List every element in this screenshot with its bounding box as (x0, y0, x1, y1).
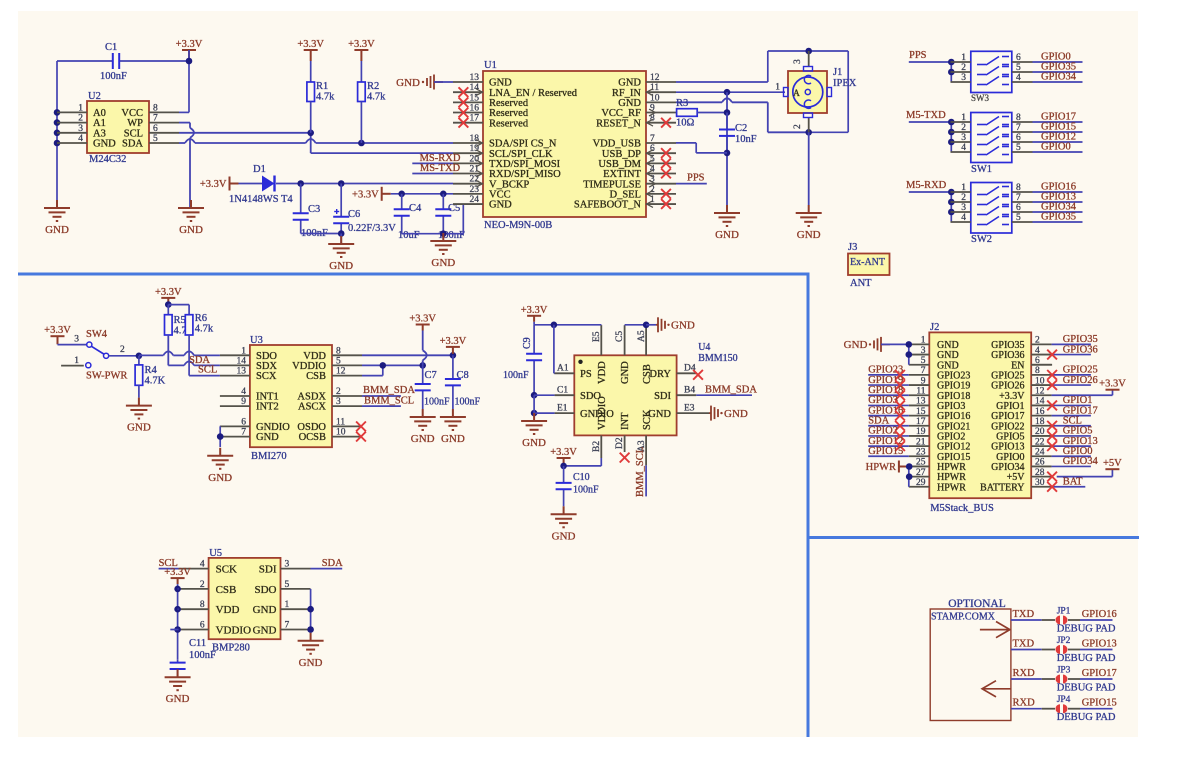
U3 pin 10 OCSB (332, 436, 362, 438)
resistor R1 4.7k (310, 61, 312, 82)
J2 pin 24 GPIO0 (1031, 455, 1051, 457)
wire C1 left to U2 pins bus (56, 61, 58, 208)
svg-text:GND: GND (715, 229, 739, 241)
svg-text:29: 29 (916, 478, 926, 488)
ground below J1 (808, 132, 810, 205)
svg-text:4: 4 (1035, 346, 1040, 356)
svg-text:B4: B4 (684, 385, 695, 395)
capacitor C10 100nF (563, 466, 565, 483)
svg-text:GPIO13: GPIO13 (1082, 639, 1117, 650)
wire U5 CSB (178, 588, 179, 590)
J2 pin 2 GPIO35 (1031, 343, 1051, 345)
net label SCL at U5 (159, 568, 179, 570)
svg-text:2: 2 (200, 580, 205, 590)
power flag +3.3V at BMM150 (527, 316, 541, 322)
svg-text:U2: U2 (88, 91, 101, 102)
SW1 pin 7 net GPIO15 (1012, 131, 1033, 133)
svg-text:BMM150: BMM150 (698, 353, 737, 364)
SW1 pin 6 net GPIO12 (1012, 141, 1033, 143)
svg-text:GND: GND (299, 657, 323, 669)
svg-text:GND: GND (671, 320, 695, 332)
J2 pin 8 GPIO25 (1031, 374, 1051, 376)
svg-text:M5Stack_BUS: M5Stack_BUS (930, 503, 994, 514)
junction C10 (560, 463, 567, 470)
U2 pin 4 GND (57, 142, 87, 144)
SW3 pin 2 (951, 71, 971, 73)
power flag +3.3V at U5 (171, 578, 185, 584)
svg-text:30: 30 (1035, 478, 1045, 488)
svg-text:VDD: VDD (216, 604, 240, 616)
svg-text:15: 15 (916, 407, 926, 417)
svg-text:U4: U4 (698, 342, 710, 353)
svg-text:SW-PWR: SW-PWR (86, 371, 127, 382)
svg-text:BATTERY: BATTERY (980, 482, 1024, 493)
svg-text:E3: E3 (684, 403, 695, 413)
svg-text:+3.3V: +3.3V (440, 336, 467, 347)
svg-text:11: 11 (650, 83, 659, 93)
svg-text:BMP280: BMP280 (212, 643, 250, 654)
no connect X at J2 pin 18 (1047, 421, 1057, 431)
resistor R4 4.7K (138, 356, 140, 365)
wire VCC to U1 pin 23 (391, 193, 453, 195)
net label GPIO26 at J2 pin 10 (1052, 384, 1091, 386)
svg-text:GND: GND (256, 432, 279, 443)
svg-text:DEBUG PAD: DEBUG PAD (1057, 683, 1116, 694)
svg-text:24: 24 (1035, 447, 1045, 457)
svg-text:GPIO34: GPIO34 (1063, 456, 1099, 467)
wire BMM SDO (534, 394, 555, 396)
U4 pin C1 SDO (555, 394, 575, 396)
svg-text:10: 10 (1035, 376, 1045, 386)
svg-text:2: 2 (793, 124, 803, 129)
SW2 pin 5 net GPIO35 (1012, 221, 1033, 223)
svg-text:9: 9 (921, 376, 926, 386)
wire PS pull up (553, 325, 555, 374)
no connect X at J2 pin 8 (1047, 370, 1057, 380)
svg-text:GPIO17: GPIO17 (1082, 668, 1117, 679)
svg-text:+5V: +5V (1103, 458, 1122, 469)
ipex connector J1 (809, 50, 849, 52)
wire C4 C5 bottom to U1 pin24 (402, 233, 464, 235)
U1 pin 13 GND (453, 81, 483, 83)
svg-text:SAFEBOOT_N: SAFEBOOT_N (574, 200, 642, 211)
svg-text:12: 12 (650, 73, 660, 83)
svg-text:+3.3V: +3.3V (409, 314, 436, 325)
net label GPIO3 at J2 pin 13 (868, 404, 909, 406)
junction C9 GNDIO (531, 410, 538, 417)
wire SW4 to U3 SDO (139, 354, 163, 356)
svg-text:6: 6 (200, 621, 205, 631)
svg-text:E1: E1 (557, 403, 568, 413)
svg-text:2: 2 (961, 193, 966, 203)
svg-text:4: 4 (1016, 73, 1021, 83)
svg-text:100nF: 100nF (573, 485, 599, 496)
no connect X at J2 pin 28 (1047, 472, 1057, 482)
no connect X U4 INT (620, 453, 630, 463)
power flag +5V at J2 (1105, 468, 1119, 470)
svg-text:SCX: SCX (256, 371, 277, 382)
svg-text:+3.3V: +3.3V (164, 567, 191, 578)
wire U1 pin12 GND to J1 shield (676, 81, 768, 83)
net label GPIO16 at J2 pin 15 (868, 415, 909, 417)
no connect X U1 pin 8 (661, 118, 671, 128)
no connect X at J2 pin 14 (1047, 401, 1057, 411)
arrow out right (980, 622, 1010, 638)
net label BMM_SCL vertical (645, 465, 647, 496)
svg-text:RXD: RXD (1013, 698, 1036, 709)
switch SW1 (971, 113, 1012, 163)
net label BAT at J2 pin 30 (1052, 486, 1086, 488)
U3 pin 6 GNDIO (220, 425, 250, 427)
svg-text:11: 11 (336, 417, 345, 427)
svg-text:3: 3 (74, 335, 79, 345)
U2 pin 5 SDA (149, 142, 179, 144)
svg-text:M5-TXD: M5-TXD (906, 110, 946, 121)
no connect X U3 pins 11 10 (356, 422, 366, 432)
svg-text:OCSB: OCSB (299, 432, 326, 443)
SW1 pin 5 net GPIO0 (1012, 151, 1033, 153)
no connect X at J2 pin 22 (1047, 441, 1057, 451)
J2 pin 19 GPIO2 (909, 435, 930, 437)
svg-text:2: 2 (1035, 336, 1040, 346)
U2 pin 8 VCC (149, 111, 179, 113)
U1 pin 5 USB_DM (646, 162, 676, 164)
SW3 pin 4 net GPIO34 (1012, 81, 1033, 83)
SW1 pin 2 (951, 131, 971, 133)
ground below U2 inputs (44, 200, 70, 221)
U4 pin A3 SCK (645, 435, 647, 465)
net label GPIO36 at J2 pin 4 (1052, 354, 1091, 356)
wire +3.3V to BMM VDD (533, 322, 535, 325)
svg-text:CSB: CSB (216, 584, 237, 596)
svg-text:8: 8 (200, 600, 205, 610)
svg-text:M24C32: M24C32 (89, 154, 126, 165)
section divider horizontal left (18, 273, 808, 276)
svg-text:100nF: 100nF (503, 370, 529, 381)
svg-text:7: 7 (1016, 193, 1021, 203)
svg-text:C4: C4 (409, 203, 422, 214)
wire V_BCKP net (276, 183, 453, 185)
svg-text:M5-RXD: M5-RXD (906, 180, 947, 191)
wire BMM VDDIO to +3.3V (600, 458, 602, 466)
svg-text:JP4: JP4 (1057, 695, 1071, 705)
section divider vertical (807, 273, 810, 738)
svg-text:+3.3V: +3.3V (1099, 379, 1126, 390)
svg-text:U3: U3 (250, 335, 263, 346)
svg-text:C5: C5 (615, 331, 625, 342)
J2 pin 18 GPIO22 (1031, 425, 1051, 427)
svg-text:GPIO26: GPIO26 (1063, 375, 1098, 386)
U1 pin 4 EXTINT (646, 173, 676, 175)
J2 pin 16 GPIO17 (1031, 415, 1051, 417)
J2 pin 20 GPIO5 (1031, 435, 1051, 437)
svg-text:GND: GND (844, 339, 868, 351)
U1 pin 1 SAFEBOOT_N (646, 203, 676, 205)
gps module U1 NEO-M9N-00B (483, 71, 646, 217)
U4 pin D4 DRY (677, 372, 697, 374)
U2 pin 6 SCL (149, 132, 179, 134)
svg-text:U1: U1 (484, 60, 497, 71)
wire BMM GNDIO (534, 412, 555, 414)
svg-text:JP3: JP3 (1057, 666, 1071, 676)
svg-text:B2: B2 (592, 441, 602, 452)
svg-text:5: 5 (1016, 63, 1021, 73)
svg-text:VDD: VDD (597, 361, 608, 384)
svg-text:13: 13 (237, 367, 247, 377)
svg-text:C2: C2 (735, 123, 747, 134)
U1 input arrows (476, 89, 483, 96)
svg-text:2: 2 (336, 387, 341, 397)
svg-text:+3.3V: +3.3V (176, 39, 203, 50)
svg-text:18: 18 (1035, 417, 1045, 427)
svg-text:VDDIO: VDDIO (216, 625, 251, 637)
net label MS-TXD (412, 173, 453, 175)
U2 pin 3 A3 (57, 132, 87, 134)
svg-text:16: 16 (1035, 407, 1045, 417)
SW1 pin 8 net GPIO17 (1012, 121, 1033, 123)
ground below C8 (440, 409, 466, 430)
capacitor C1 (57, 60, 113, 62)
svg-text:16: 16 (470, 104, 480, 114)
J2 pin 23 GPIO15 (909, 455, 930, 457)
U2 pin 2 A1 (57, 122, 87, 124)
svg-text:R1: R1 (316, 81, 328, 92)
svg-text:PS: PS (580, 369, 592, 380)
svg-text:C11: C11 (189, 638, 206, 649)
U1 pin 23 VCC (453, 193, 483, 195)
J2 pin 9 GPIO19 (909, 384, 930, 386)
SW3 pin 3 (951, 81, 971, 83)
power flag +3.3V at J2 (1106, 389, 1120, 391)
resistor R5 4.7k (167, 305, 169, 315)
J2 pin 25 HPWR (909, 465, 930, 467)
svg-text:4.7k: 4.7k (195, 324, 214, 335)
svg-text:DEBUG PAD: DEBUG PAD (1057, 712, 1116, 723)
U5 pin 4 SCK (179, 568, 209, 570)
svg-text:4.7k: 4.7k (316, 92, 335, 103)
svg-text:GPIO15: GPIO15 (868, 446, 903, 457)
SW2 pin 1 (951, 191, 971, 193)
wire U2 VCC to +3.3V (179, 111, 189, 113)
ground below R4 (126, 398, 152, 419)
wire U3 VDD to +3.3V (362, 354, 453, 356)
U1 pin 21 RXD/SPI_MISO (453, 173, 483, 175)
svg-text:GND: GND (253, 604, 277, 616)
U1 pin 15 Reserved (453, 101, 483, 103)
svg-text:GND: GND (522, 437, 546, 449)
svg-text:5: 5 (285, 580, 290, 590)
J2 pin 11 GPIO18 (909, 394, 930, 396)
svg-text:100nF: 100nF (424, 397, 450, 408)
svg-text:18: 18 (470, 134, 480, 144)
U1 pin 11 RF_IN (646, 91, 676, 93)
J2 pin 30 BATTERY (1031, 486, 1051, 488)
svg-text:BMM_SDA: BMM_SDA (705, 384, 757, 395)
svg-text:A5: A5 (637, 330, 647, 342)
power flag +3.3V at C10 (557, 458, 571, 464)
U4 pin E5 VDD (600, 325, 602, 355)
J2 pin 6 EN (1031, 364, 1051, 366)
svg-text:INT: INT (620, 412, 631, 430)
svg-text:GND: GND (411, 433, 435, 445)
svg-text:17: 17 (916, 417, 926, 427)
no connect X at J2 pin 20 (1047, 431, 1057, 441)
U1 pin 9 VCC_RF (646, 112, 676, 114)
svg-text:25: 25 (916, 458, 926, 468)
svg-text:28: 28 (1035, 468, 1045, 478)
gnd power port at J2 pin1 (874, 337, 890, 352)
svg-text:C8: C8 (457, 370, 469, 381)
wire U1 pin10 GND to J1 shield (676, 101, 722, 103)
diode D1 1N4148WS T4 (239, 183, 264, 185)
U4 pin C5 GND (624, 325, 626, 355)
J2 pin 5 GND (909, 364, 930, 366)
U4 pin D2 INT (624, 435, 626, 452)
U3 pin 3 ASCX (332, 405, 362, 407)
SW3 pin 1 (951, 61, 971, 63)
U3 pin 7 GND (220, 436, 250, 438)
svg-text:E5: E5 (592, 331, 602, 342)
svg-text:TXD: TXD (1013, 609, 1035, 620)
ground below C9 (521, 413, 547, 434)
svg-text:ANT: ANT (850, 278, 872, 289)
svg-text:14: 14 (237, 356, 247, 366)
J2 pin 27 HPWR (909, 476, 930, 478)
junction C4 top (398, 191, 405, 198)
wire U3 VDDIO (362, 364, 423, 366)
U3 pin 9 INT2 (220, 405, 250, 407)
imu U3 BMI270 (250, 345, 332, 447)
U5 pin 3 SDI (281, 568, 311, 570)
svg-text:3: 3 (78, 124, 83, 134)
wire J2 +3.3V pin 12 (1052, 394, 1113, 396)
svg-text:GND: GND (253, 625, 277, 637)
svg-text:GND: GND (208, 472, 232, 484)
net label MS-RXD (412, 162, 453, 164)
svg-text:J1: J1 (833, 67, 842, 78)
net label SCL at J2 pin 18 (1052, 425, 1091, 427)
svg-text:14: 14 (470, 83, 480, 93)
ground below C10 (551, 506, 577, 527)
svg-text:GND: GND (127, 422, 151, 434)
no connect X at J2 pin 30 (1047, 482, 1057, 492)
J2 pin 29 HPWR (909, 486, 930, 488)
svg-text:DEBUG PAD: DEBUG PAD (1057, 624, 1116, 635)
svg-text:GND: GND (620, 361, 631, 384)
svg-text:SDO: SDO (254, 584, 276, 596)
junction R5 R6 top (165, 301, 172, 308)
svg-text:GND: GND (724, 408, 748, 420)
svg-text:A: A (793, 89, 800, 99)
net label GPIO23 at J2 pin 7 (868, 374, 909, 376)
svg-text:13: 13 (916, 397, 926, 407)
svg-text:RXD: RXD (1013, 668, 1036, 679)
switch SW2 (971, 183, 1012, 234)
U1 pin 22 V_BCKP (453, 183, 483, 185)
U1 pin 14 LNA_EN / Reserved (453, 91, 483, 93)
svg-text:BMM_SCL: BMM_SCL (364, 396, 414, 407)
bus connector J2 M5Stack_BUS (929, 332, 1031, 498)
gnd power port at U1 pin 13 (427, 75, 443, 90)
U5 pin 2 CSB (179, 588, 209, 590)
svg-text:CSB: CSB (306, 371, 326, 382)
svg-text:7: 7 (241, 428, 246, 438)
net label GPIO25 at J2 pin 8 (1052, 374, 1091, 376)
gnd bar port at BMM E3 (709, 406, 718, 421)
net label SDA at J2 pin 17 (868, 425, 909, 427)
svg-text:GPIO34: GPIO34 (1041, 72, 1077, 83)
U3 pin 12 CSB (332, 375, 362, 377)
svg-text:1: 1 (74, 356, 79, 366)
svg-text:20: 20 (1035, 427, 1045, 437)
svg-text:SW2: SW2 (971, 234, 992, 245)
svg-text:6: 6 (1016, 133, 1021, 143)
power flag +3.3V above R1 (304, 50, 318, 61)
svg-text:HPWR: HPWR (937, 482, 966, 493)
svg-text:JP2: JP2 (1057, 636, 1071, 646)
svg-text:RESET_N: RESET_N (596, 118, 641, 129)
U5 pin 1 GND (281, 608, 311, 610)
wire U1 pin11 RF_IN to J1 pin1 (676, 91, 785, 93)
ground below C6 (340, 234, 342, 245)
svg-text:3: 3 (961, 73, 966, 83)
svg-text:+3.3V: +3.3V (352, 189, 379, 200)
SW2 pin 4 (951, 221, 971, 223)
U3 pin 5 VDDIO (332, 364, 362, 366)
U1 pin 20 TXD/SPI_MOSI (453, 162, 483, 164)
svg-text:17: 17 (470, 114, 480, 124)
svg-text:J3: J3 (848, 242, 857, 253)
junction C3 top (297, 180, 304, 187)
svg-text:10uF: 10uF (398, 230, 420, 241)
svg-text:12: 12 (336, 367, 346, 377)
svg-text:SDI: SDI (259, 564, 277, 576)
svg-text:Ex-ANT: Ex-ANT (850, 257, 885, 268)
wire +3.3V down to VDDIO (422, 331, 424, 351)
U1 pin 2 D_SEL (646, 193, 676, 195)
svg-text:PPS: PPS (909, 50, 927, 61)
J2 pin 14 GPIO1 (1031, 404, 1051, 406)
svg-text:6: 6 (241, 417, 246, 427)
svg-text:SDA: SDA (122, 139, 143, 150)
svg-text:C6: C6 (348, 209, 360, 220)
SW1 pin 1 (951, 121, 971, 123)
svg-text:TXD: TXD (1013, 639, 1035, 650)
svg-text:GND: GND (329, 260, 353, 272)
U1 pin 18 SDA/SPI CS_N (453, 142, 483, 144)
antenna bias vertical wire (726, 92, 728, 213)
svg-text:J2: J2 (930, 322, 939, 333)
svg-text:MS-TXD: MS-TXD (420, 163, 461, 174)
capacitor C11 100nF (177, 659, 179, 662)
svg-text:C10: C10 (573, 472, 590, 483)
svg-text:+3.3V: +3.3V (200, 179, 227, 190)
svg-text:1: 1 (285, 600, 290, 610)
svg-text:GPIO36: GPIO36 (1063, 344, 1098, 355)
net label GPIO12 at J2 pin 21 (868, 445, 909, 447)
svg-text:0.22F/3.3V: 0.22F/3.3V (348, 223, 396, 234)
switch SW3 (971, 51, 1012, 92)
junction VDD_USB to gnd net (724, 150, 731, 157)
junction C6 top (338, 180, 345, 187)
U5 pin 6 VDDIO (179, 629, 209, 631)
wire U3 CSB join VDDIO (362, 375, 383, 377)
svg-text:4.7K: 4.7K (145, 376, 166, 387)
net label GPIO2 at J2 pin 19 (868, 435, 909, 437)
net label BMM_SCL at U3 (362, 405, 401, 407)
ground below C2 (714, 205, 740, 226)
no connect X U4 DRY (693, 370, 703, 380)
